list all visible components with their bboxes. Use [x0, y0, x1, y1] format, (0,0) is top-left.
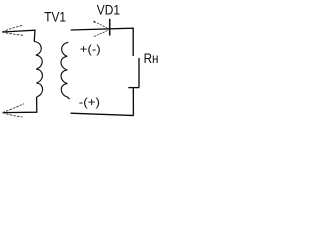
wire	[71, 28, 134, 56]
wire	[71, 113, 134, 115]
primary winding TV1	[34, 42, 42, 98]
diode VD1 cathode bar	[109, 19, 111, 36]
svg-text:+(-): +(-)	[80, 42, 101, 56]
ac input arrow bottom	[3, 104, 24, 117]
resistor Rн body	[128, 58, 139, 88]
svg-text:VD1: VD1	[97, 2, 120, 18]
diode VD1 anode arrow	[94, 22, 109, 37]
wire	[2, 30, 35, 41]
secondary winding TV1	[61, 42, 70, 99]
ac input arrow top	[2, 25, 24, 35]
svg-text:TV1: TV1	[44, 8, 66, 24]
wire	[3, 97, 37, 113]
svg-text:-(+): -(+)	[79, 95, 100, 109]
wire	[132, 88, 134, 116]
svg-text:Rн: Rн	[144, 51, 159, 66]
